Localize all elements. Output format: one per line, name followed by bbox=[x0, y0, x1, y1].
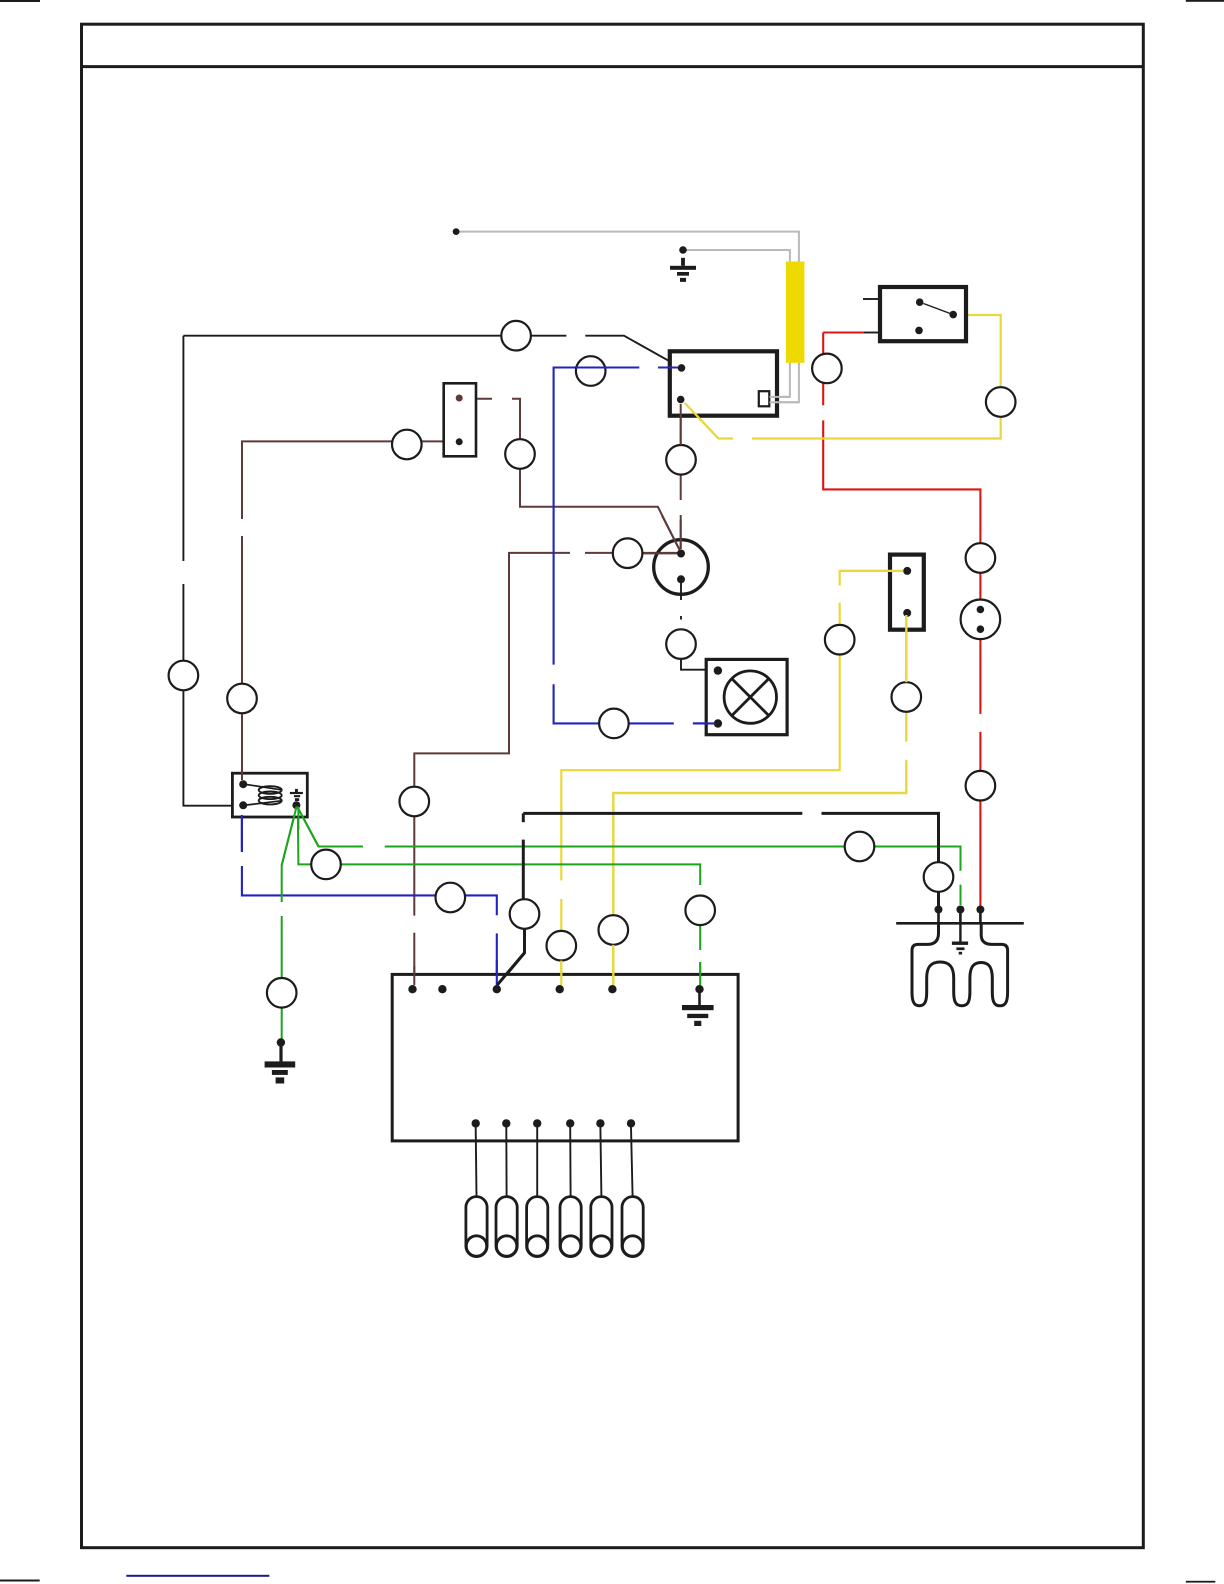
wire yellow into thermo S2 top pin bbox=[840, 570, 904, 572]
wire blue into fan M1 pin bbox=[693, 722, 716, 724]
wire maroon C-pin2 to distributor bbox=[680, 401, 682, 445]
ignition module U1 box bbox=[670, 351, 777, 415]
wire black left vertical to relay K1 bbox=[182, 336, 184, 561]
wire maroon B1-bottom to relay K1 bbox=[422, 440, 460, 442]
switch S1 contacts bbox=[916, 298, 924, 306]
connector B1 pins bbox=[456, 395, 463, 402]
wire yellow out of thermo S2 bottom pin bbox=[905, 615, 907, 682]
wire maroon B1-top to distributor bbox=[461, 398, 492, 400]
fan M1 lamp symbol bbox=[724, 671, 776, 723]
distributor D1 pins bbox=[643, 552, 677, 554]
wire blue out of relay K1 bbox=[241, 815, 243, 852]
heater R1 element bbox=[912, 923, 1008, 1006]
wire blue over ring C2 bbox=[576, 366, 639, 368]
ground G3 inside heater R1 bbox=[959, 923, 961, 941]
wire green relay to heater R1 pin2 bbox=[297, 807, 363, 847]
ground G1 (top center) bbox=[679, 246, 687, 254]
wire yellow C-pin2 to switch S1 bbox=[682, 400, 734, 439]
spark plug wires bbox=[475, 1128, 478, 1197]
wire red switch S1 to heater R1 bbox=[823, 331, 864, 333]
fuse F1 yellow bar bbox=[786, 262, 805, 363]
fan M1 pins bbox=[714, 666, 722, 674]
wire maroon into relay K1 pin bbox=[241, 770, 243, 780]
wires into control box F1 top pins bbox=[413, 966, 415, 985]
wire yellow out of ignition U1 pin2 bbox=[685, 403, 719, 439]
connector rings C1-C25 bbox=[501, 321, 531, 351]
wire gray W2 (ground to connector) bbox=[683, 250, 790, 397]
wire gray W1 (junction dot to connector) bbox=[456, 232, 799, 403]
wire green relay to box F pin6 bbox=[298, 807, 311, 864]
control box F1 bbox=[392, 974, 738, 1141]
fan M1 box bbox=[706, 659, 787, 734]
wire blue C-pin1 to fan M1 bbox=[658, 366, 678, 368]
connector B1 box bbox=[444, 383, 476, 456]
wire yellow thermo-top to box F pin4 bbox=[840, 571, 903, 586]
ground G2 (green wire chassis ground) bbox=[277, 1038, 285, 1046]
spark plug boots P1-P6 bbox=[466, 1197, 487, 1257]
wire blue relay K1 to box F pin3 bbox=[241, 817, 243, 852]
ground G4 inside control box F1 bbox=[698, 989, 701, 1005]
ground G5 inside relay K1 (inverted) bbox=[292, 801, 300, 809]
wire green relay to chassis ground bbox=[282, 807, 297, 903]
relay K1 box bbox=[232, 773, 307, 817]
connector C26 two-pin bbox=[961, 600, 1001, 640]
wire black top-left with switch blade bbox=[183, 335, 501, 337]
control box F1 bottom pins bbox=[472, 1119, 480, 1127]
wire maroon distributor to box F pin1 bbox=[643, 552, 678, 554]
ignition module U1 pins bbox=[678, 364, 686, 372]
distributor D1 bbox=[654, 540, 709, 595]
wire green stubs out of relay K1 bbox=[297, 807, 318, 847]
wire black harness to heater R1 pin1 bbox=[523, 812, 802, 815]
relay K1 coil bbox=[247, 785, 282, 790]
wire black harness to box F pin3 bbox=[522, 813, 525, 822]
control box F1 top pins bbox=[408, 985, 416, 993]
heater R1 rail bbox=[896, 922, 1024, 925]
heater R1 pin leads bbox=[937, 910, 940, 925]
thermo switch S2 pins bbox=[903, 567, 911, 575]
wire black distributor to fan M1 bbox=[680, 616, 682, 620]
wire blue into ignition U1 pin1 bbox=[658, 366, 678, 368]
connector J1 inside U1 bbox=[759, 391, 770, 406]
thermo switch S2 box bbox=[890, 555, 924, 630]
wire yellow thermo-bottom to box F pin5 bbox=[905, 615, 907, 682]
switch S1 box bbox=[880, 287, 966, 341]
wire maroon out of ignition U1 pin2 bbox=[680, 404, 682, 445]
relay K1 pins bbox=[239, 780, 247, 788]
